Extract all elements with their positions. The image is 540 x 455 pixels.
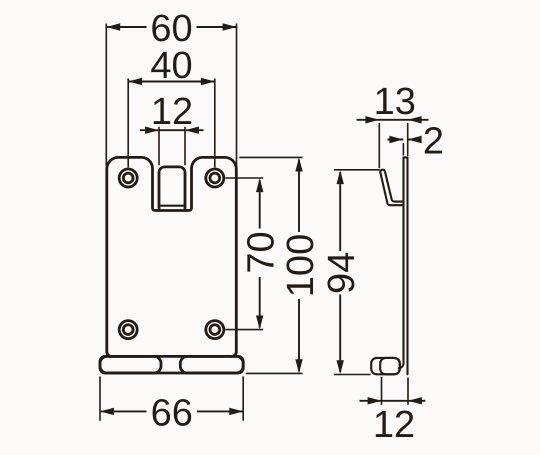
svg-text:40: 40 xyxy=(150,45,192,87)
dim 60 line xyxy=(106,26,236,28)
dim 100 arrows xyxy=(295,158,302,172)
tab bottom bend line xyxy=(159,205,185,207)
hole top-left inner xyxy=(123,173,133,183)
svg-text:94: 94 xyxy=(321,252,363,294)
hole top-right outer xyxy=(206,169,224,187)
dim 60 extension lines xyxy=(106,24,236,166)
hole top-right inner xyxy=(210,173,220,183)
dim 100 extension line bottom (from base bottom) xyxy=(246,372,303,374)
dim 13 extension lines xyxy=(379,123,407,168)
dim 2 extension line left xyxy=(402,143,404,156)
dim 12 bottom line xyxy=(360,400,426,402)
dim 94 line xyxy=(339,172,341,372)
svg-text:12: 12 xyxy=(151,91,193,133)
base right pad xyxy=(180,356,243,373)
side view hook tip cap xyxy=(380,170,385,173)
svg-text:66: 66 xyxy=(151,392,193,434)
dim 70 extension line bottom (from hole) xyxy=(225,329,263,331)
dim 40 line xyxy=(128,81,215,83)
svg-text:12: 12 xyxy=(373,404,415,446)
dim 70 extension line top (from hole) xyxy=(225,177,263,179)
side view plate right face xyxy=(406,157,408,374)
dim 66 line xyxy=(100,410,243,412)
hole bottom-left outer xyxy=(119,321,137,339)
hole bottom-left inner xyxy=(123,325,133,335)
hole top-left outer xyxy=(119,169,137,187)
dim 12 bottom arrows xyxy=(368,397,382,404)
svg-text:2: 2 xyxy=(423,120,444,162)
dim 66 extension lines xyxy=(100,376,243,420)
dim 12 arrows xyxy=(145,127,159,134)
dim 40 arrows xyxy=(128,78,142,85)
dim 2 arrows xyxy=(389,136,403,143)
dim 13 arrows xyxy=(365,116,379,123)
dim 100 extension line top (from plate top) xyxy=(239,156,302,158)
dim 66 arrows xyxy=(100,408,114,415)
side view foot outer xyxy=(371,358,400,374)
side view hook outer line xyxy=(380,173,403,205)
dim 94 extension line top (from hook tip) xyxy=(334,169,380,171)
svg-text:70: 70 xyxy=(241,231,283,273)
side view hook inner line xyxy=(385,171,404,201)
hole bottom-right inner xyxy=(210,325,220,335)
dim 70 line xyxy=(259,180,261,328)
dim 60 arrows xyxy=(106,23,120,30)
svg-text:60: 60 xyxy=(150,8,192,50)
side view plate left face xyxy=(399,157,404,368)
front view plate outline xyxy=(107,157,237,356)
dim 70 arrows xyxy=(256,178,263,192)
dim 12 bottom extension lines xyxy=(382,377,409,405)
svg-text:100: 100 xyxy=(280,234,322,297)
base left pad xyxy=(100,356,161,373)
dim 94 extension line bottom (from foot) xyxy=(334,374,371,376)
side view plate top edge xyxy=(404,156,408,158)
dim 2 line xyxy=(388,139,421,141)
svg-text:13: 13 xyxy=(374,81,416,123)
side view foot inner pad xyxy=(380,358,400,374)
base outer xyxy=(100,356,243,373)
dim 94 arrows xyxy=(337,170,344,184)
dim 100 line xyxy=(298,160,300,372)
dim 13 line xyxy=(357,119,429,121)
front view center tab xyxy=(159,167,185,211)
dim 12 extension lines xyxy=(159,127,185,166)
dim 12 line xyxy=(140,129,204,131)
dim 40 extension lines xyxy=(128,79,215,168)
hole bottom-right outer xyxy=(206,321,224,339)
